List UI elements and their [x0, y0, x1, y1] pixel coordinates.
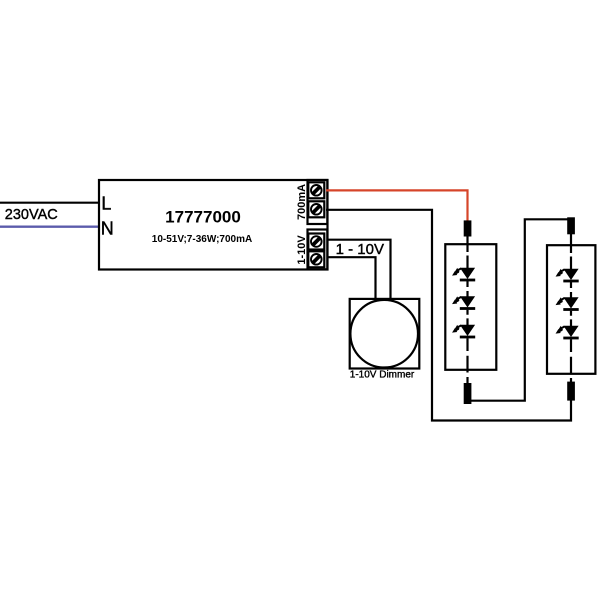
- terminal block 700mA outline: [308, 180, 328, 224]
- wire LED module 1 to module 2: [468, 219, 572, 400]
- terminal screw square 4: [308, 251, 324, 267]
- LED D5: [554, 296, 578, 311]
- LED D6: [554, 324, 578, 339]
- terminal screw square 3: [308, 234, 324, 250]
- wire dimmer + (terminal 3): [328, 240, 391, 299]
- wire LED- (terminal 2 to LED module 2 bottom): [326, 210, 571, 421]
- terminal screw square 1: [308, 182, 324, 198]
- LED module 1 top pin: [464, 220, 472, 236]
- LED D4: [554, 267, 578, 282]
- LED module 1 bottom pin: [464, 383, 472, 404]
- LED driver box U1: [99, 180, 328, 270]
- wire dimmer - (terminal 4): [328, 257, 376, 299]
- terminal block 1-10V outline: [308, 230, 328, 270]
- svg-text:230VAC: 230VAC: [5, 207, 58, 223]
- wire N (230VAC neutral, blue): [0, 226, 99, 228]
- LED module 2 outline: [547, 245, 595, 374]
- LED module 1 dashed center line: [466, 236, 468, 384]
- LED module 2 dashed center line: [570, 234, 572, 382]
- LED module 1 outline: [445, 244, 496, 370]
- screw 3: [311, 236, 322, 247]
- dimmer box: [350, 299, 420, 369]
- wire LED+ (red, terminal 1 to LED module 1): [326, 190, 468, 222]
- LED D2: [451, 295, 475, 310]
- svg-text:10-51V;7-36W;700mA: 10-51V;7-36W;700mA: [152, 234, 252, 245]
- svg-text:N: N: [101, 218, 114, 238]
- svg-text:1-10V: 1-10V: [296, 235, 308, 265]
- screw 1: [311, 185, 322, 196]
- LED D3: [451, 323, 475, 338]
- screw 2: [311, 204, 322, 215]
- svg-text:1-10V Dimmer: 1-10V Dimmer: [350, 369, 415, 380]
- svg-text:17777000: 17777000: [165, 207, 241, 226]
- screw 4: [311, 254, 322, 265]
- LED D1: [451, 266, 475, 281]
- dimmer knob circle: [350, 300, 418, 368]
- terminal screw square 2: [308, 201, 324, 217]
- LED module 2 top pin: [567, 217, 575, 234]
- svg-text:1 - 10V: 1 - 10V: [336, 241, 384, 258]
- wire L (230VAC live): [0, 202, 99, 204]
- svg-text:L: L: [101, 193, 111, 213]
- LED module 2 bottom pin: [567, 382, 575, 401]
- svg-text:700mA: 700mA: [296, 184, 308, 220]
